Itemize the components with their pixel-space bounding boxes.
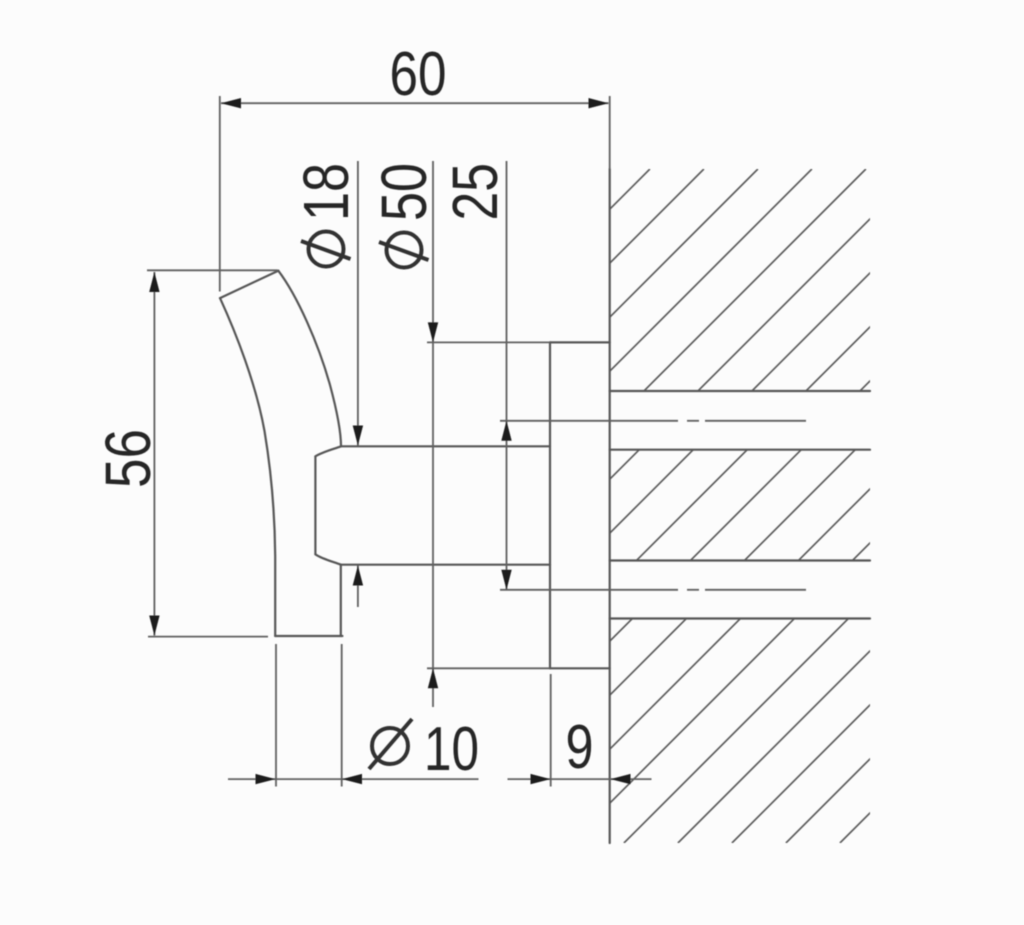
d10 dim line (228, 778, 479, 780)
object outlines (220, 169, 870, 843)
collar top fillet (315, 446, 341, 456)
d50 bottom (428, 668, 438, 688)
d50 bottom extension (427, 667, 550, 669)
d18 bottom (353, 566, 363, 586)
dimension and extension lines (147, 96, 652, 787)
d18 line lower (357, 566, 359, 608)
60 right (589, 98, 609, 108)
collar left edge (314, 456, 316, 554)
centerlines (500, 421, 806, 590)
56 top (149, 272, 159, 292)
25 top (501, 421, 511, 441)
svg-text:18: 18 (290, 163, 362, 221)
svg-text:60: 60 (390, 40, 447, 109)
d50 top (428, 322, 438, 342)
60 left extension (219, 96, 221, 292)
hook inner (right) edge (278, 271, 341, 447)
stem right edge (340, 565, 342, 636)
56 top extension (147, 269, 278, 271)
d50 line (432, 161, 434, 707)
9 left (531, 774, 551, 784)
d10 right extension (341, 644, 343, 787)
svg-text:25: 25 (439, 163, 511, 221)
hook outer (left) edge (220, 298, 275, 636)
56 bottom extension (148, 636, 268, 638)
9 dim line (508, 778, 652, 780)
hook tip edge (220, 271, 278, 298)
d10 right (342, 774, 362, 784)
upper hole bottom edge (610, 449, 870, 451)
9 extension (550, 674, 552, 787)
d18 top (353, 426, 363, 446)
upper hole top edge (610, 390, 870, 392)
arrowheads (149, 98, 630, 784)
60 left (221, 98, 241, 108)
60 dim line (221, 102, 609, 104)
dia symbol of d18 (309, 232, 344, 267)
25 bottom (501, 570, 511, 590)
d50 top extension (427, 341, 550, 343)
svg-text:56: 56 (92, 429, 164, 488)
svg-text:9: 9 (566, 713, 594, 782)
d10 left (256, 774, 276, 784)
wall face (609, 169, 611, 843)
flange top edge (550, 341, 610, 343)
d10 left extension (275, 644, 277, 787)
lower hole top edge (610, 559, 870, 561)
neck bottom edge (341, 564, 550, 566)
flange left edge (549, 342, 551, 668)
9 right (611, 774, 631, 784)
collar bottom fillet (315, 554, 340, 564)
60 right extension (609, 96, 611, 169)
stem bottom edge (275, 635, 342, 637)
25 line (506, 161, 508, 590)
flange bottom edge (550, 667, 610, 669)
56 bottom (149, 616, 159, 636)
dia symbol of d50 (387, 233, 422, 268)
dimension texts (92, 40, 594, 784)
d18 line upper (357, 161, 359, 446)
lower hole bottom edge (610, 617, 870, 619)
neck top edge (341, 445, 550, 447)
dia symbol of d10 (372, 728, 408, 764)
diameter symbols (301, 232, 429, 770)
56 dim line (153, 272, 155, 636)
wall hatching (0, 169, 1024, 843)
svg-text:10: 10 (424, 715, 479, 784)
svg-text:50: 50 (368, 163, 440, 221)
